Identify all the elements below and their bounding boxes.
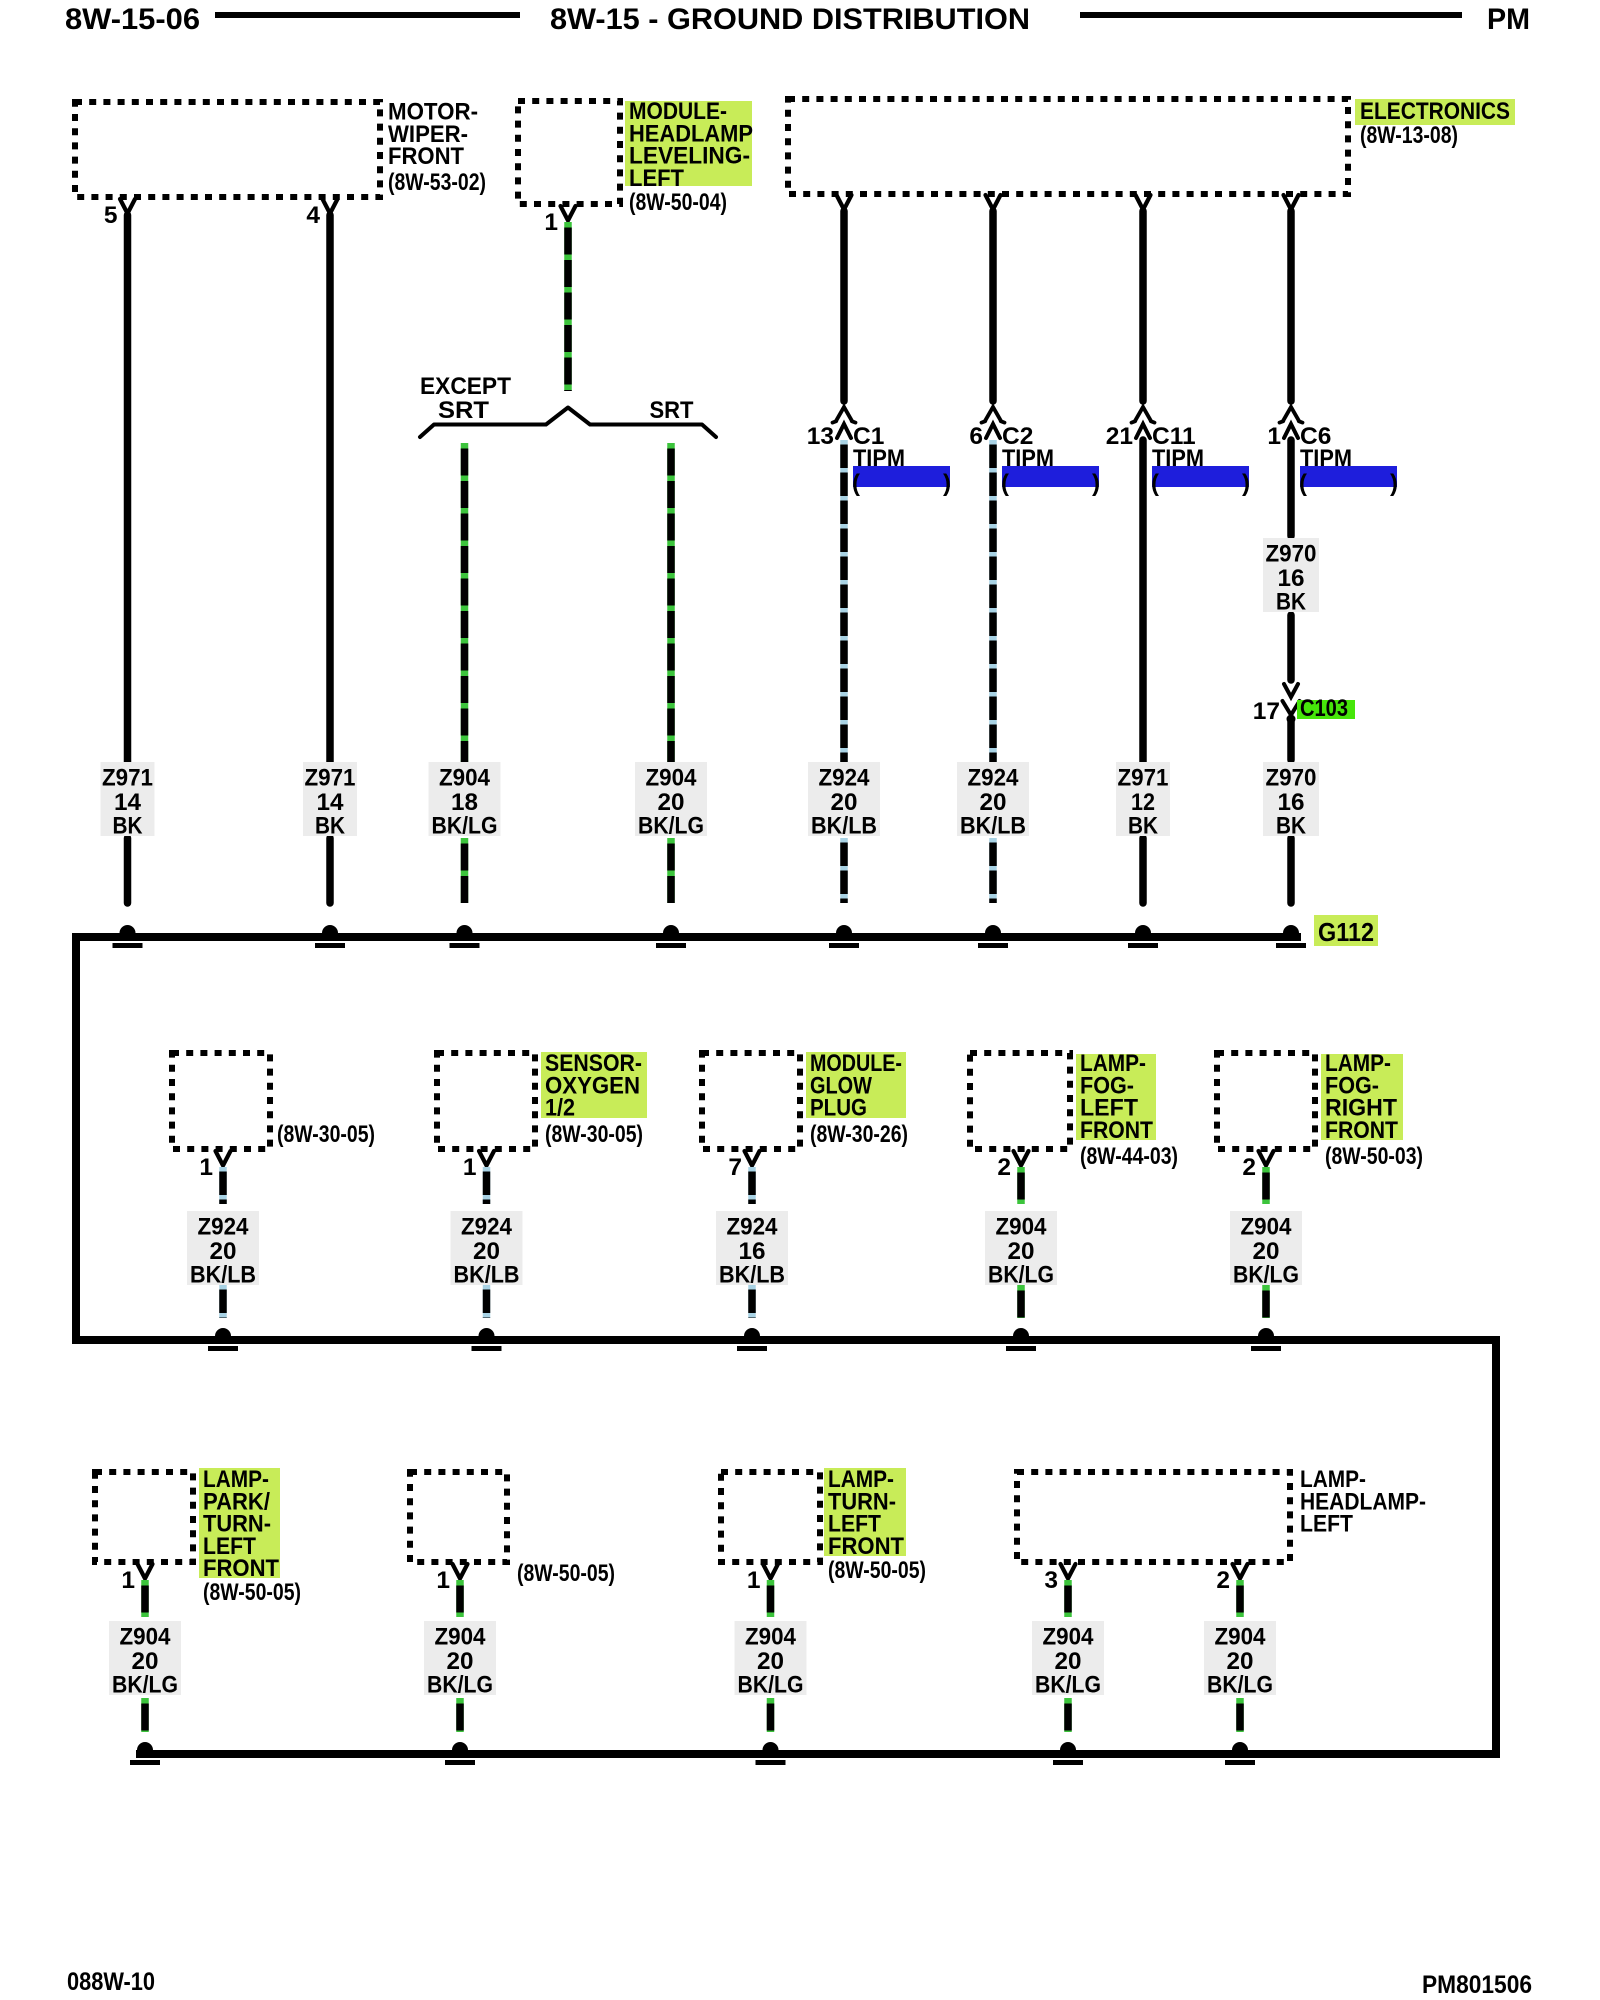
- svg-text:21: 21: [1106, 423, 1133, 450]
- svg-text:(8W-30-05): (8W-30-05): [545, 1121, 643, 1148]
- svg-text:2: 2: [1216, 1567, 1230, 1594]
- svg-text:PM: PM: [1487, 3, 1530, 36]
- svg-text:Z971: Z971: [102, 765, 153, 792]
- svg-text:BK/LG: BK/LG: [988, 1262, 1054, 1289]
- svg-text:Z904: Z904: [439, 765, 490, 792]
- svg-text:(8W-50-05): (8W-50-05): [517, 1560, 615, 1587]
- svg-text:Z924: Z924: [727, 1214, 778, 1241]
- svg-text:(8W-13-08): (8W-13-08): [1360, 122, 1458, 149]
- svg-text:FRONT: FRONT: [1325, 1117, 1398, 1144]
- svg-text:(8W-30-05): (8W-30-05): [277, 1121, 375, 1148]
- svg-text:Z904: Z904: [745, 1624, 796, 1651]
- svg-text:Z904: Z904: [646, 765, 697, 792]
- svg-text:Z904: Z904: [996, 1214, 1047, 1241]
- svg-text:1: 1: [463, 1154, 477, 1181]
- svg-text:BK/LG: BK/LG: [112, 1672, 178, 1699]
- svg-text:1: 1: [199, 1154, 213, 1181]
- svg-text:(: (: [1299, 470, 1307, 497]
- svg-text:G112: G112: [1318, 917, 1374, 947]
- svg-text:Z904: Z904: [1043, 1624, 1094, 1651]
- svg-text:1: 1: [544, 209, 558, 236]
- svg-text:BK/LG: BK/LG: [1233, 1262, 1299, 1289]
- svg-text:BK/LG: BK/LG: [1207, 1672, 1273, 1699]
- svg-text:BK/LG: BK/LG: [432, 813, 498, 840]
- svg-text:ELECTRONICS: ELECTRONICS: [1360, 98, 1510, 125]
- svg-text:6: 6: [969, 423, 983, 450]
- svg-text:Z924: Z924: [819, 765, 870, 792]
- svg-text:Z971: Z971: [305, 765, 356, 792]
- svg-text:Z970: Z970: [1266, 765, 1317, 792]
- svg-text:(8W-50-04): (8W-50-04): [629, 189, 727, 216]
- svg-text:): ): [1242, 470, 1250, 497]
- svg-text:8W-15 - GROUND DISTRIBUTION: 8W-15 - GROUND DISTRIBUTION: [550, 3, 1030, 36]
- svg-text:1: 1: [121, 1567, 135, 1594]
- svg-text:(: (: [852, 470, 860, 497]
- svg-text:8W-15-06: 8W-15-06: [65, 3, 200, 36]
- svg-text:): ): [1390, 470, 1398, 497]
- svg-text:BK: BK: [1128, 813, 1158, 840]
- svg-text:Z924: Z924: [968, 765, 1019, 792]
- svg-text:(8W-30-26): (8W-30-26): [810, 1121, 908, 1148]
- svg-text:(: (: [1151, 470, 1159, 497]
- svg-text:C103: C103: [1300, 695, 1348, 722]
- svg-text:(: (: [1001, 470, 1009, 497]
- svg-text:BK/LG: BK/LG: [427, 1672, 493, 1699]
- svg-text:088W-10: 088W-10: [67, 1968, 155, 1996]
- svg-text:SRT: SRT: [438, 397, 489, 424]
- svg-text:FRONT: FRONT: [828, 1533, 904, 1560]
- svg-text:BK: BK: [1276, 589, 1306, 616]
- svg-text:1: 1: [436, 1567, 450, 1594]
- svg-text:BK/LG: BK/LG: [738, 1672, 804, 1699]
- svg-text:Z904: Z904: [1215, 1624, 1266, 1651]
- svg-text:1: 1: [747, 1567, 761, 1594]
- svg-text:BK/LG: BK/LG: [1035, 1672, 1101, 1699]
- svg-text:17: 17: [1253, 698, 1280, 725]
- svg-text:1: 1: [1267, 423, 1281, 450]
- svg-text:SRT: SRT: [650, 397, 694, 424]
- svg-text:(8W-50-05): (8W-50-05): [203, 1579, 301, 1606]
- svg-text:(8W-50-05): (8W-50-05): [828, 1557, 926, 1584]
- svg-text:5: 5: [104, 202, 118, 229]
- svg-text:PLUG: PLUG: [810, 1095, 867, 1122]
- svg-text:1/2: 1/2: [545, 1095, 575, 1122]
- svg-text:BK/LG: BK/LG: [638, 813, 704, 840]
- svg-text:(8W-53-02): (8W-53-02): [388, 169, 486, 196]
- svg-text:LEFT: LEFT: [629, 165, 684, 192]
- svg-text:BK: BK: [113, 813, 143, 840]
- svg-text:(8W-44-03): (8W-44-03): [1080, 1143, 1178, 1170]
- svg-text:BK: BK: [315, 813, 345, 840]
- svg-text:Z924: Z924: [198, 1214, 249, 1241]
- svg-text:BK/LB: BK/LB: [811, 813, 877, 840]
- svg-text:13: 13: [807, 423, 834, 450]
- svg-text:BK/LB: BK/LB: [719, 1262, 785, 1289]
- svg-text:BK/LB: BK/LB: [960, 813, 1026, 840]
- svg-text:Z971: Z971: [1118, 765, 1169, 792]
- svg-text:EXCEPT: EXCEPT: [420, 373, 511, 400]
- svg-text:LEFT: LEFT: [1300, 1511, 1353, 1538]
- svg-text:Z904: Z904: [120, 1624, 171, 1651]
- svg-text:PM801506: PM801506: [1422, 1971, 1532, 1999]
- svg-text:3: 3: [1044, 1567, 1058, 1594]
- svg-text:FRONT: FRONT: [1080, 1117, 1153, 1144]
- svg-text:): ): [1092, 470, 1100, 497]
- svg-text:2: 2: [1242, 1154, 1256, 1181]
- svg-text:BK: BK: [1276, 813, 1306, 840]
- svg-text:2: 2: [997, 1154, 1011, 1181]
- svg-text:7: 7: [728, 1154, 742, 1181]
- svg-text:Z924: Z924: [461, 1214, 512, 1241]
- svg-text:BK/LB: BK/LB: [190, 1262, 256, 1289]
- svg-text:Z904: Z904: [1241, 1214, 1292, 1241]
- svg-text:(8W-50-03): (8W-50-03): [1325, 1143, 1423, 1170]
- svg-text:Z904: Z904: [435, 1624, 486, 1651]
- svg-text:4: 4: [306, 202, 320, 229]
- svg-text:): ): [943, 470, 951, 497]
- svg-text:BK/LB: BK/LB: [454, 1262, 520, 1289]
- svg-text:Z970: Z970: [1266, 541, 1317, 568]
- svg-text:FRONT: FRONT: [388, 143, 464, 170]
